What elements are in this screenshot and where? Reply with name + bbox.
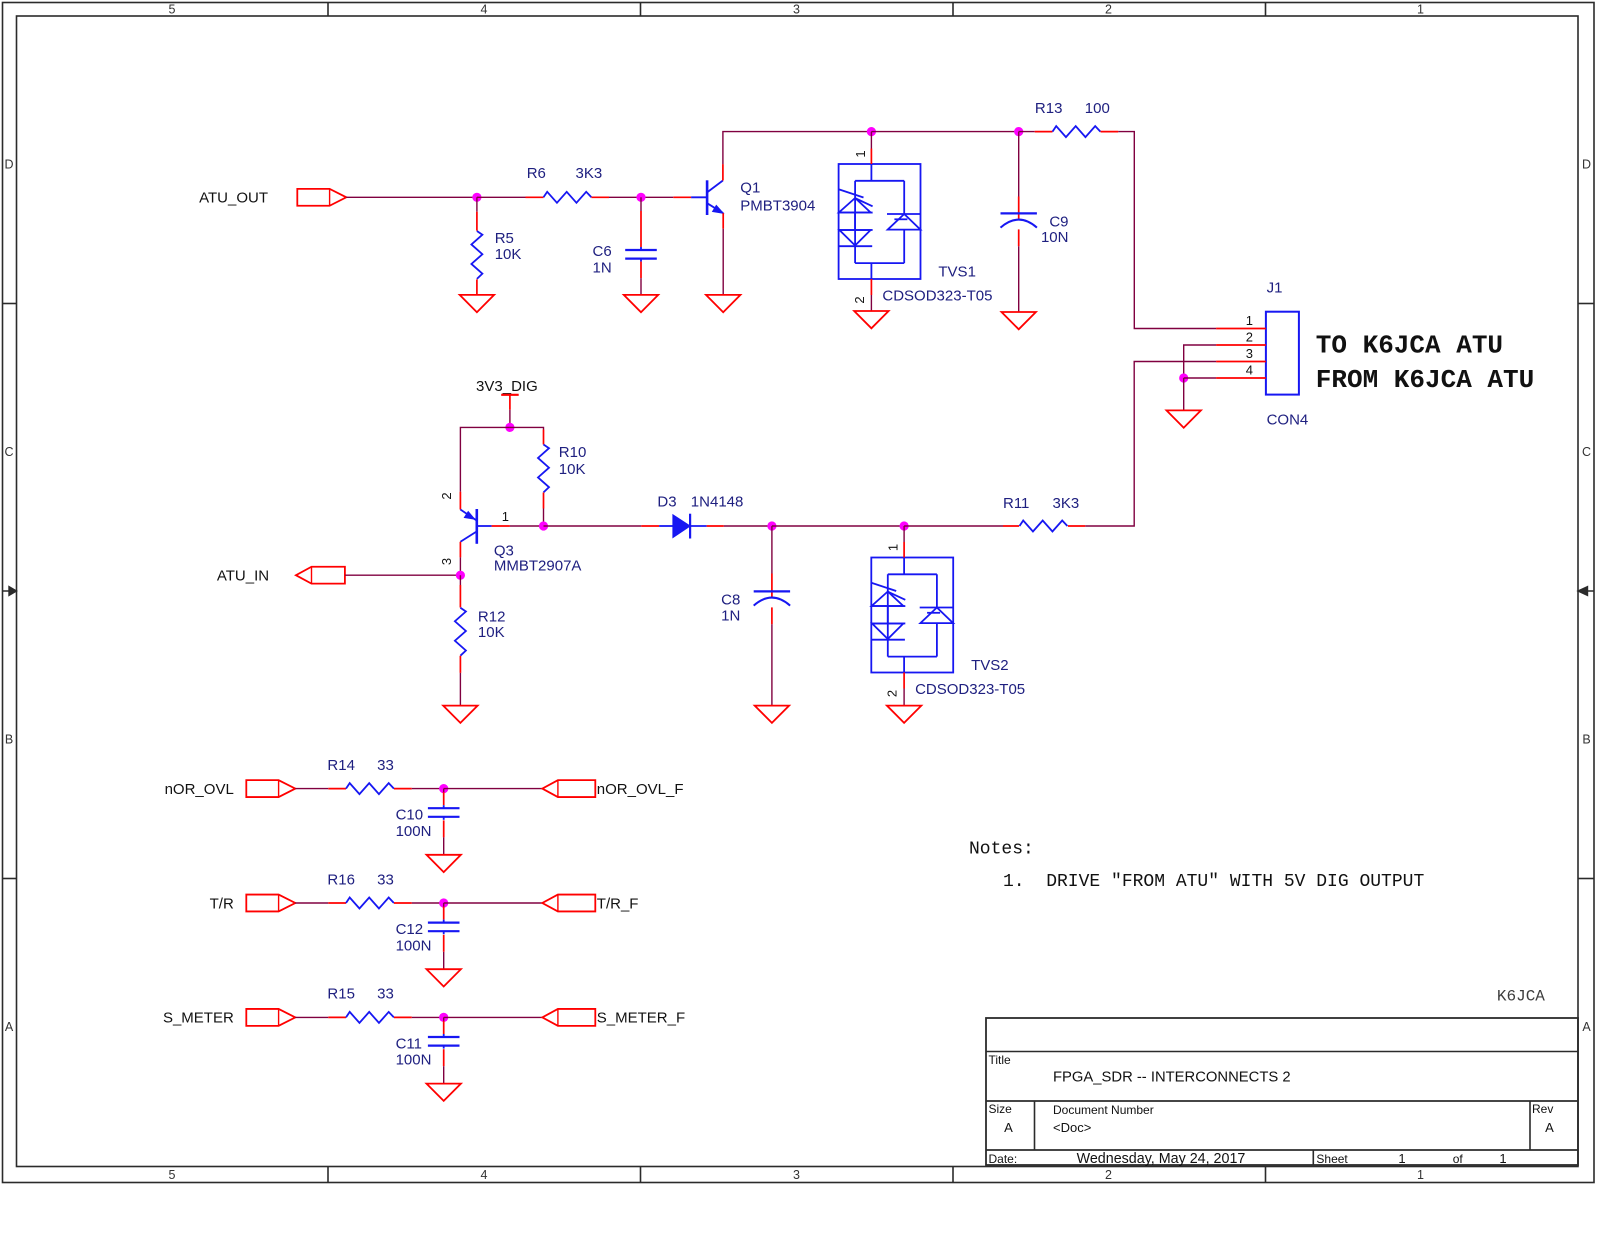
svg-text:2: 2 [1246, 330, 1253, 345]
svg-text:S_METER: S_METER [163, 1010, 234, 1027]
svg-text:ATU_IN: ATU_IN [217, 568, 269, 585]
ground C6 [624, 295, 658, 312]
junction node filter cap [439, 784, 448, 793]
svg-text:100N: 100N [396, 1052, 432, 1069]
svg-text:D: D [4, 157, 13, 171]
junction node Q3 base [539, 521, 548, 530]
resistor R16 33 [327, 871, 411, 908]
junction node filter cap [439, 1013, 448, 1022]
svg-text:33: 33 [377, 986, 394, 1003]
svg-text:TO K6JCA ATU: TO K6JCA ATU [1316, 331, 1503, 361]
svg-text:nOR_OVL: nOR_OVL [165, 781, 234, 798]
resistor R10 10K [538, 430, 586, 527]
pin 3 [1216, 361, 1266, 363]
svg-text:33: 33 [377, 757, 394, 774]
svg-text:2: 2 [1105, 1168, 1112, 1182]
wire 3V3 to Q3 emitter [460, 427, 510, 491]
wire junction to output port [444, 788, 543, 790]
svg-text:1N4148: 1N4148 [691, 494, 744, 511]
svg-text:C: C [1582, 445, 1591, 459]
ground R12 [443, 706, 477, 723]
wire port to resistor [295, 1016, 328, 1018]
svg-text:R5: R5 [495, 230, 514, 247]
pin 2 [1216, 344, 1266, 346]
svg-text:1: 1 [1246, 313, 1253, 328]
wire resistor to junction [412, 902, 444, 904]
svg-text:1: 1 [886, 544, 901, 551]
transistor Q3 MMBT2907A [439, 492, 581, 575]
svg-text:2: 2 [885, 690, 900, 697]
svg-text:CON4: CON4 [1267, 412, 1309, 429]
svg-text:of: of [1453, 1152, 1464, 1166]
svg-text:D3: D3 [657, 494, 676, 511]
svg-text:Notes:: Notes: [969, 840, 1034, 860]
wire Q1 emitter to ground [722, 229, 724, 295]
wire TVS2 junction to R11 [904, 525, 1003, 527]
wire junction to output port [444, 902, 543, 904]
svg-text:10K: 10K [559, 461, 586, 478]
junction node 3V3 [505, 423, 514, 432]
ground TVS2 [887, 706, 921, 723]
svg-text:A: A [1582, 1020, 1591, 1034]
capacitor C9 10N [1001, 132, 1069, 312]
wire junction to output port [444, 1016, 543, 1018]
svg-text:K6JCA: K6JCA [1497, 988, 1545, 1006]
svg-text:A: A [1004, 1120, 1013, 1135]
svg-text:Q1: Q1 [740, 179, 760, 196]
wire Q3 base to R10 junction [510, 525, 544, 527]
svg-text:Date:: Date: [989, 1152, 1018, 1166]
ground R5 [460, 295, 494, 312]
svg-text:R15: R15 [327, 986, 355, 1003]
svg-text:Title: Title [989, 1053, 1012, 1067]
ground filter cap [427, 1084, 461, 1101]
connector J1 CON4 [1216, 280, 1308, 429]
svg-text:FROM K6JCA ATU: FROM K6JCA ATU [1316, 365, 1534, 395]
svg-text:10K: 10K [478, 624, 505, 641]
svg-text:Rev: Rev [1532, 1102, 1553, 1116]
svg-text:C6: C6 [593, 243, 612, 260]
svg-text:C10: C10 [396, 807, 424, 824]
wire R11 to J1 pin3 [1085, 362, 1216, 527]
svg-text:Size: Size [989, 1102, 1013, 1116]
ground filter cap [427, 855, 461, 872]
svg-text:2: 2 [852, 296, 867, 303]
wire R6 to C6 junction to Q1 base [609, 196, 673, 198]
svg-text:D: D [1582, 157, 1591, 171]
ground J1 [1167, 410, 1201, 427]
ground Q1 emitter [706, 295, 740, 312]
svg-text:1: 1 [502, 509, 509, 524]
svg-text:<Doc>: <Doc> [1053, 1120, 1091, 1135]
port ATU_OUT [199, 189, 346, 207]
port S_METER_F [542, 1009, 685, 1027]
resistor R5 10K [471, 197, 521, 295]
wire Q1 collector rail [723, 132, 872, 165]
svg-text:R12: R12 [478, 608, 506, 625]
svg-text:1: 1 [853, 150, 868, 157]
ground C9 [1002, 312, 1036, 329]
svg-text:R14: R14 [327, 757, 355, 774]
svg-text:TVS2: TVS2 [971, 657, 1009, 674]
svg-text:C: C [4, 445, 13, 459]
svg-text:J1: J1 [1267, 280, 1283, 297]
svg-text:A: A [5, 1020, 14, 1034]
svg-text:1: 1 [1499, 1151, 1506, 1166]
svg-text:B: B [1582, 732, 1590, 746]
wire D3 to C8 junction [724, 525, 772, 527]
capacitor C8 1N [721, 526, 790, 706]
svg-text:C8: C8 [721, 592, 740, 609]
svg-text:2: 2 [439, 492, 454, 499]
resistor R11 3K3 [1003, 495, 1085, 531]
svg-text:1: 1 [1398, 1151, 1405, 1166]
svg-text:3V3_DIG: 3V3_DIG [476, 378, 538, 395]
wire TVS1 stem [870, 132, 872, 149]
svg-text:5: 5 [169, 3, 176, 17]
svg-text:C11: C11 [396, 1035, 422, 1052]
junction node filter cap [439, 898, 448, 907]
TVS diode TVS2 CDSOD323-T05 [871, 542, 1025, 698]
svg-text:R16: R16 [327, 871, 355, 888]
wire J1 pin4 net [1184, 377, 1216, 379]
svg-text:3: 3 [793, 1168, 800, 1182]
junction node J1 gnd [1179, 373, 1188, 382]
junction node C8 [767, 521, 776, 530]
wire ATU_OUT to R5 junction [346, 196, 477, 198]
svg-text:10N: 10N [1041, 229, 1069, 246]
svg-text:MMBT2907A: MMBT2907A [494, 558, 582, 575]
wire TVS2 pin2 to ground [903, 689, 905, 706]
svg-text:10K: 10K [495, 246, 522, 263]
wire J1 gnd stem [1183, 378, 1185, 410]
wire resistor to junction [412, 1016, 444, 1018]
resistor R12 10K [455, 575, 506, 705]
svg-text:1N: 1N [593, 260, 612, 277]
junction node C9 [1014, 127, 1023, 136]
svg-text:CDSOD323-T05: CDSOD323-T05 [915, 681, 1025, 698]
wire J1 pin2 net [1184, 345, 1216, 378]
svg-text:R6: R6 [527, 165, 546, 182]
svg-text:Document Number: Document Number [1053, 1103, 1154, 1117]
junction node ATU_IN [456, 571, 465, 580]
svg-text:S_METER_F: S_METER_F [597, 1010, 685, 1027]
svg-text:B: B [5, 732, 13, 746]
svg-text:3: 3 [1246, 346, 1253, 361]
svg-text:FPGA_SDR -- INTERCONNECTS 2: FPGA_SDR -- INTERCONNECTS 2 [1053, 1070, 1291, 1086]
ground TVS1 [854, 311, 888, 328]
svg-text:1: 1 [1417, 3, 1424, 17]
svg-text:1N: 1N [721, 607, 740, 624]
svg-text:Wednesday, May 24, 2017: Wednesday, May 24, 2017 [1077, 1151, 1246, 1167]
power 3V3_DIG [476, 378, 538, 410]
wire TVS1 junction to C9 junction [871, 131, 1018, 133]
port nOR_OVL_F [542, 780, 683, 798]
transistor Q1 PMBT3904 [673, 164, 815, 229]
wire ATU_IN to Q3 collector [345, 574, 460, 576]
wire TVS1 pin2 to ground [870, 295, 872, 311]
port T/R [210, 895, 296, 913]
svg-text:3: 3 [439, 558, 454, 565]
wire Q3 base junction to D3 [544, 525, 642, 527]
svg-text:100N: 100N [396, 937, 432, 954]
wire R13 to J1 pin1 [1118, 132, 1216, 329]
wire C8 junction to TVS2 junction [772, 525, 904, 527]
svg-text:nOR_OVL_F: nOR_OVL_F [597, 781, 684, 798]
svg-text:PMBT3904: PMBT3904 [740, 198, 815, 215]
junction node TVS2 [900, 521, 909, 530]
junction node R5/R6 [472, 193, 481, 202]
resistor R15 33 [327, 986, 411, 1023]
svg-text:TVS1: TVS1 [938, 264, 976, 281]
svg-text:4: 4 [481, 3, 488, 17]
svg-text:R13: R13 [1035, 100, 1063, 117]
svg-text:1. DRIVE "FROM ATU" WITH 5V D: 1. DRIVE "FROM ATU" WITH 5V DIG OUTPUT [1003, 872, 1424, 892]
pin 1 [1216, 328, 1266, 330]
svg-text:R10: R10 [559, 444, 587, 461]
svg-text:Sheet: Sheet [1316, 1152, 1348, 1166]
junction node C6 [636, 193, 645, 202]
svg-text:100: 100 [1085, 100, 1110, 117]
capacitor C6 1N [593, 197, 657, 295]
wire Q3 collector to junction [459, 557, 461, 575]
svg-text:4: 4 [1246, 363, 1253, 378]
svg-text:R11: R11 [1003, 495, 1029, 512]
wire 3V3_DIG stem [509, 410, 511, 428]
svg-text:T/R_F: T/R_F [597, 895, 639, 912]
capacitor C11 100N [396, 1017, 460, 1083]
capacitor C12 100N [396, 903, 460, 969]
svg-text:100N: 100N [396, 823, 432, 840]
wire C9 junction to R13 [1019, 131, 1035, 133]
wire port to resistor [295, 902, 328, 904]
capacitor C10 100N [396, 789, 460, 855]
svg-text:T/R: T/R [210, 895, 234, 912]
port nOR_OVL [165, 780, 296, 798]
junction node TVS1 [867, 127, 876, 136]
svg-text:5: 5 [169, 1168, 176, 1182]
wire port to resistor [295, 788, 328, 790]
wire TVS2 stem [903, 526, 905, 542]
port ATU_IN [217, 567, 345, 585]
resistor R13 100 [1035, 100, 1119, 137]
diode D3 1N4148 [641, 494, 743, 539]
ground filter cap [427, 969, 461, 986]
resistor R6 3K3 [526, 165, 610, 203]
svg-text:4: 4 [481, 1168, 488, 1182]
svg-text:1: 1 [1417, 1168, 1424, 1182]
port S_METER [163, 1009, 295, 1027]
ground C8 [755, 706, 789, 723]
port T/R_F [542, 895, 638, 913]
svg-text:3: 3 [793, 3, 800, 17]
wire 3V3 to R10 [510, 427, 544, 429]
svg-text:C12: C12 [396, 921, 424, 938]
svg-text:3K3: 3K3 [576, 165, 603, 182]
resistor R14 33 [327, 757, 411, 794]
wire junction to R6 [477, 196, 526, 198]
pin 4 [1216, 377, 1266, 379]
wire resistor to junction [412, 788, 444, 790]
TVS diode TVS1 CDSOD323-T05 [839, 149, 993, 305]
svg-text:ATU_OUT: ATU_OUT [199, 190, 268, 207]
svg-text:A: A [1545, 1120, 1554, 1135]
svg-text:CDSOD323-T05: CDSOD323-T05 [882, 288, 992, 305]
svg-text:3K3: 3K3 [1053, 495, 1080, 512]
svg-text:33: 33 [377, 871, 394, 888]
svg-text:2: 2 [1105, 3, 1112, 17]
